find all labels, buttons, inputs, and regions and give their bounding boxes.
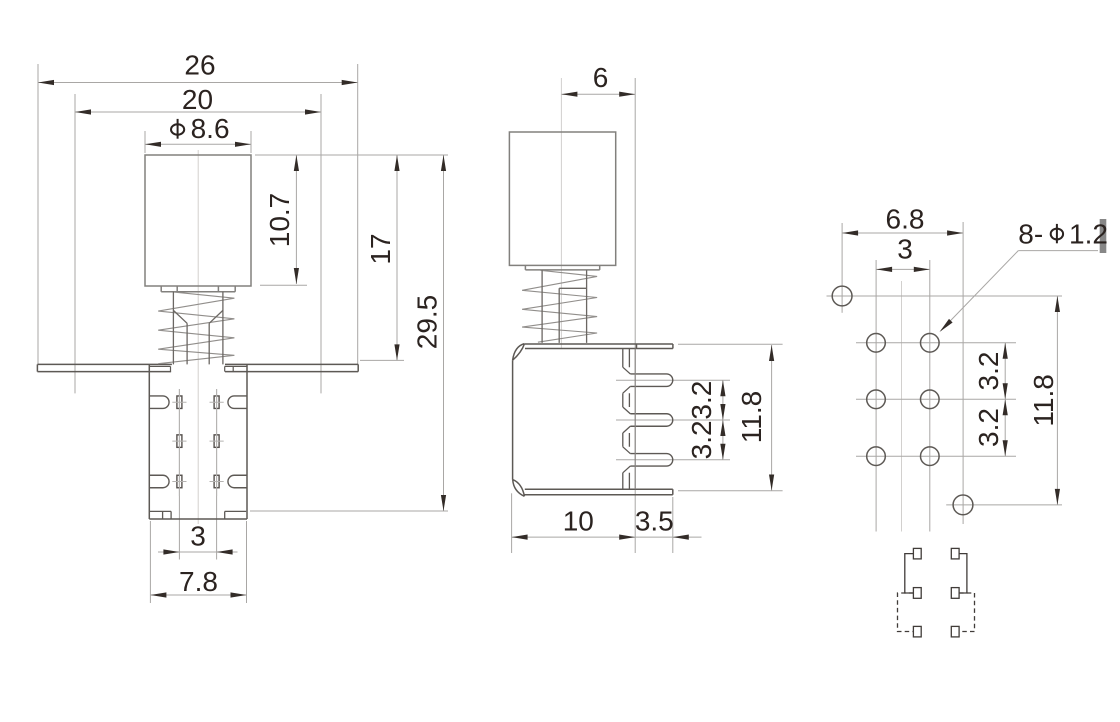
svg-text:3.2: 3.2 <box>686 420 717 459</box>
svg-text:3.2: 3.2 <box>973 408 1004 447</box>
svg-text:20: 20 <box>182 84 213 115</box>
svg-text:17: 17 <box>365 233 396 264</box>
svg-text:8.6: 8.6 <box>191 113 230 144</box>
svg-text:6.8: 6.8 <box>886 204 925 235</box>
svg-text:1.2: 1.2 <box>1069 219 1108 250</box>
svg-text:3.5: 3.5 <box>635 505 674 536</box>
svg-text:11.8: 11.8 <box>736 391 767 443</box>
svg-text:7.8: 7.8 <box>179 566 218 597</box>
svg-text:10.7: 10.7 <box>264 193 295 248</box>
svg-text:29.5: 29.5 <box>412 295 443 350</box>
svg-text:6: 6 <box>593 62 609 93</box>
svg-text:26: 26 <box>184 50 215 81</box>
svg-text:3: 3 <box>190 521 206 552</box>
svg-text:10: 10 <box>563 505 594 536</box>
svg-text:3.2: 3.2 <box>686 381 717 420</box>
svg-text:3.2: 3.2 <box>973 352 1004 391</box>
svg-text:11.8: 11.8 <box>1028 374 1059 426</box>
svg-text:3: 3 <box>897 234 913 265</box>
svg-text:8-: 8- <box>1018 219 1043 250</box>
